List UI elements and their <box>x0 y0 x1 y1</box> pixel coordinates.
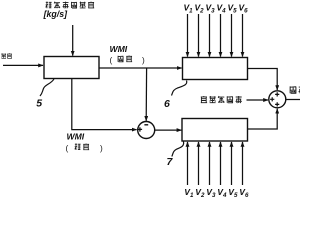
svg-text:V6: V6 <box>239 187 249 199</box>
svg-text:V5: V5 <box>228 3 238 15</box>
svg-text:5: 5 <box>36 98 42 110</box>
minus sign <box>144 124 148 126</box>
summing junction (adder) <box>269 91 286 108</box>
wire arrow into box 5 left <box>3 64 43 66</box>
label 理论设定值 (theoretical setpoint) <box>201 96 242 103</box>
leader for 6 <box>172 81 187 96</box>
svg-text:V6: V6 <box>239 3 249 15</box>
wire setpoint to adder <box>247 99 269 101</box>
wire subtractor to box7 <box>155 129 182 131</box>
svg-text:V4: V4 <box>217 3 227 15</box>
plus sign <box>138 127 142 131</box>
svg-text:V5: V5 <box>228 187 238 199</box>
leader for 7 <box>172 142 184 157</box>
V input arrows bottom <box>188 142 243 185</box>
svg-text:V1: V1 <box>184 3 194 15</box>
wire box7 to adder bottom <box>248 109 278 129</box>
plus signs <box>275 92 279 96</box>
wire adder output <box>286 99 300 101</box>
svg-text:(: ( <box>66 144 69 153</box>
V1..V6 top labels <box>184 3 249 15</box>
summing junction (subtractor) <box>138 122 155 139</box>
block 6 <box>183 58 248 80</box>
svg-text:V3: V3 <box>206 3 216 15</box>
svg-text:): ) <box>142 56 145 65</box>
label 控制 (control, clipped) <box>290 86 305 93</box>
wire box5 to box6 <box>99 67 182 69</box>
svg-text:7: 7 <box>167 156 174 168</box>
svg-text:V4: V4 <box>217 187 227 199</box>
leader for 5 <box>40 79 54 96</box>
svg-text:V3: V3 <box>206 187 216 199</box>
svg-text:6: 6 <box>164 98 170 110</box>
wire branch down to subtractor <box>145 68 147 121</box>
label （短期） <box>66 144 104 153</box>
svg-text:V2: V2 <box>195 3 205 15</box>
wire box5 bottom to subtractor left <box>72 79 137 130</box>
svg-text:V1: V1 <box>184 187 194 199</box>
svg-text:WMI: WMI <box>110 44 128 54</box>
label 流量 (flow) <box>1 53 12 58</box>
wire arrow into box 5 top <box>72 25 74 56</box>
label 干燥木材流量 (dry wood flow) <box>46 2 95 9</box>
svg-text:[kg/s]: [kg/s] <box>43 9 69 19</box>
V input arrows top <box>188 14 243 57</box>
wire box6 to adder top <box>248 69 278 91</box>
svg-text:(: ( <box>110 56 113 65</box>
svg-text:V2: V2 <box>195 187 205 199</box>
label （长期） <box>110 56 146 65</box>
block 5 <box>44 57 99 79</box>
svg-text:WMI: WMI <box>67 132 85 142</box>
svg-text:): ) <box>100 144 103 153</box>
block 7 <box>182 119 248 142</box>
V1..V6 bottom labels <box>184 187 249 199</box>
